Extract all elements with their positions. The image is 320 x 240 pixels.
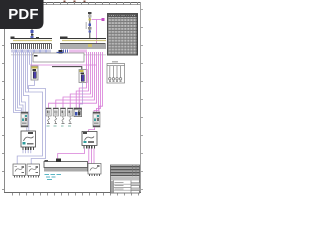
- frame top ruler: [4, 2, 141, 5]
- PDF badge: [0, 0, 44, 29]
- fuse row F3-F6: [46, 108, 73, 124]
- terminal strip X3: [44, 159, 88, 172]
- X2 wire stubs: [61, 50, 86, 53]
- K1 to M1 wire: [26, 127, 28, 131]
- breaker block right of fuse row: [74, 108, 82, 117]
- frame right ruler: [141, 2, 144, 193]
- F2 output wire: [80, 83, 83, 109]
- magenta bus wire: [30, 64, 97, 66]
- plug box U2: [107, 61, 125, 83]
- relay K1: [21, 112, 28, 127]
- svg-text:PDF: PDF: [8, 6, 39, 23]
- pilot device K5: [88, 164, 101, 175]
- relay K2: [93, 112, 100, 127]
- terminal strip X2: [60, 37, 106, 56]
- pilot device K3: [13, 164, 26, 178]
- magenta feeder from Q1: [92, 20, 104, 45]
- fuse F1: [31, 66, 38, 80]
- X1 wire stubs: [12, 50, 51, 53]
- frame bottom ruler: [4, 193, 141, 196]
- interconnect label box: [33, 50, 84, 62]
- M2 wire stubs to K5: [58, 149, 94, 164]
- fuse F2: [79, 70, 87, 83]
- X1 tie wires to bus: [30, 52, 32, 66]
- M1 terminal comb: [22, 147, 34, 150]
- supply chain Q1 above X2: [86, 12, 92, 38]
- label tick above X1 line: [36, 37, 39, 39]
- label tick above X2: [64, 36, 67, 38]
- title block: [111, 165, 140, 193]
- magenta wire bundle from X2: [49, 52, 103, 112]
- M2 terminal comb: [83, 146, 95, 149]
- wire number text under fuse row: [47, 125, 71, 128]
- device box M1: [21, 131, 36, 147]
- K2 to M2 wire: [89, 127, 95, 132]
- wiring grid table: [108, 14, 138, 56]
- left wire bundle from X1: [14, 52, 46, 164]
- device box M2: [82, 132, 97, 146]
- dark feed wire to F2: [52, 67, 82, 70]
- F1 output wire: [29, 80, 35, 92]
- disconnect symbol S1 above X1: [31, 29, 34, 38]
- terminal strip X1: [11, 37, 53, 56]
- X3 wire number labels: [45, 174, 62, 180]
- frame left ruler: [2, 2, 5, 193]
- pilot device K4: [27, 164, 40, 178]
- M1 wire stubs: [23, 150, 31, 153]
- zone numbers above top frame: [64, 0, 86, 1]
